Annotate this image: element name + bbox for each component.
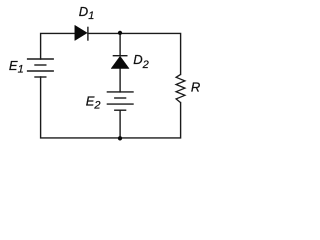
svg-text:D1: D1 [79,4,95,22]
svg-text:E2: E2 [86,94,101,112]
wire middle branch upper [119,33,121,55]
resistor R [176,74,185,102]
wire top-right segment [88,33,181,74]
wire bottom loop [41,77,181,138]
svg-text:R: R [191,80,200,95]
battery E1 [27,59,54,77]
diode D2 [111,56,129,69]
battery E2 [107,92,134,110]
junction node top [118,31,122,35]
junction node bottom [118,136,122,140]
wire middle branch lower [119,110,121,138]
wire middle branch mid [119,68,121,92]
svg-text:E1: E1 [9,58,24,75]
svg-text:D2: D2 [133,52,149,71]
wire top-left segment [41,33,75,59]
diode D1 [75,25,88,40]
